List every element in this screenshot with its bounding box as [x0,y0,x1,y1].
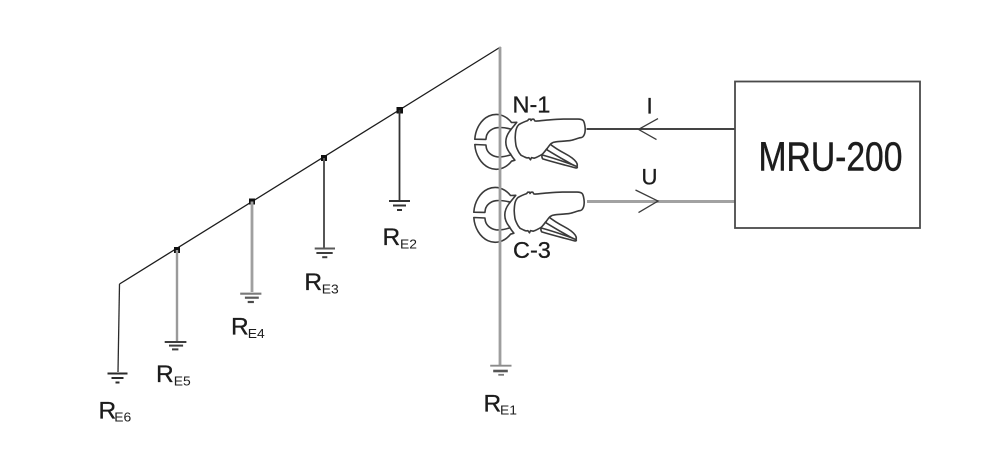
meter MRU-200 box [735,82,920,229]
wire: voltage lead U to MRU-200 [587,200,735,203]
svg-text:E5: E5 [174,375,191,389]
svg-text:E3: E3 [322,283,339,297]
body [515,119,585,160]
trigger lever [547,143,577,167]
ground RE3 [315,249,335,258]
wire: RE2 vertical drop [399,110,401,200]
ground RE1 [490,366,511,375]
ground RE5 [165,342,187,349]
ground RE4 [240,294,261,302]
jaw upper half [475,114,517,139]
node J4 junction dot [249,199,255,205]
svg-text:E4: E4 [248,327,265,341]
svg-text:E1: E1 [500,403,517,417]
node J5 junction dot [174,247,180,253]
wire: RE3 vertical drop [323,158,325,248]
svg-text:C-3: C-3 [513,237,551,263]
node J3 junction dot [321,155,327,161]
svg-text:R: R [484,391,502,418]
clamp C-3 [474,187,584,242]
arrowhead I (pointing left) [639,119,659,140]
svg-text:I: I [647,94,653,119]
clamp N-1 [475,114,585,169]
wire: RE4 vertical drop [251,202,254,293]
wire: RE6 vertical drop [118,284,120,372]
jaw lower half [475,145,515,170]
wire: current lead I to MRU-200 [587,128,736,130]
svg-text:R: R [383,224,401,251]
ground RE2 [389,201,410,210]
svg-text:R: R [156,361,174,388]
svg-text:U: U [642,165,658,190]
wire: main vertical earth conductor RE1 [499,47,502,365]
arrowhead U (pointing right) [636,190,659,213]
svg-text:E2: E2 [400,237,417,251]
svg-text:N-1: N-1 [513,92,551,118]
ground RE6 [108,374,128,383]
wire: RE5 vertical drop [176,250,178,341]
node J2 junction dot [397,107,404,114]
svg-text:E6: E6 [114,411,131,425]
wire: diagonal earth-electrode bus from apex to left bend [120,47,501,284]
svg-text:R: R [304,269,322,296]
svg-text:R: R [231,314,249,341]
jaw inner crescent [506,130,511,155]
svg-text:MRU-200: MRU-200 [759,134,903,180]
trigger lower lever [542,155,578,168]
